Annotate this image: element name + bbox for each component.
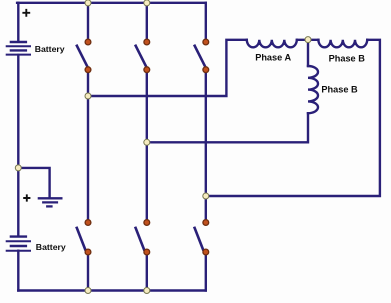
switch S5 blade [136, 228, 144, 250]
wire mid coil top lead [307, 40, 309, 66]
node top bus / leg A [85, 0, 91, 6]
wire left rail lower [17, 251, 19, 291]
node top bus / leg B [144, 0, 150, 6]
node leg A / phase feed [85, 93, 91, 99]
wire phase-A feed [88, 40, 247, 96]
switch contact S6 upper [203, 220, 209, 226]
switch S6 blade [195, 228, 203, 250]
svg-text:Phase B: Phase B [321, 84, 358, 94]
switch contact S4 lower [85, 249, 91, 255]
wire leg B middle [146, 70, 148, 223]
wire leg A upper [87, 3, 89, 42]
wire leg B lower [146, 252, 148, 291]
svg-text:Phase B: Phase B [329, 54, 366, 64]
wire leg C upper [205, 3, 207, 42]
wire leg A lower [87, 252, 89, 291]
switch contact S5 lower [144, 249, 150, 255]
wire leg C middle [205, 70, 207, 223]
switch contact S6 lower [203, 249, 209, 255]
ground [38, 198, 63, 206]
wire mid coil return [147, 113, 308, 142]
node left rail / ground [15, 165, 21, 171]
plus sign bottom [23, 194, 30, 201]
battery B1 [6, 42, 31, 55]
switch contact S2 upper [144, 39, 150, 45]
node leg C / right return [203, 193, 209, 199]
wire phase-B return right [206, 40, 380, 196]
node leg B / mid coil return [144, 139, 150, 145]
svg-text:Battery: Battery [36, 242, 66, 252]
switch contact S1 upper [85, 39, 91, 45]
inductor Phase A [247, 40, 297, 48]
wire leg A middle [87, 70, 89, 223]
switch S2 blade [136, 46, 146, 67]
wire left rail upper [17, 3, 19, 42]
node bottom bus / leg B [144, 288, 150, 294]
switch S4 blade [77, 228, 85, 250]
switch contact S3 lower [203, 67, 209, 73]
wire top bus [17, 2, 206, 4]
svg-text:Phase A: Phase A [255, 53, 291, 63]
switch contact S5 upper [144, 220, 150, 226]
plus sign top [22, 9, 30, 17]
inductor Phase B top [318, 40, 367, 48]
switch contact S3 upper [203, 39, 209, 45]
wire left rail middle [17, 55, 19, 236]
inductor Phase B middle [308, 66, 318, 113]
switch contact S1 lower [85, 67, 91, 73]
switch S3 blade [195, 46, 205, 67]
wire leg C lower [205, 252, 207, 291]
battery B2 [6, 237, 31, 251]
node bottom bus / leg A [85, 288, 91, 294]
switch S1 blade [77, 46, 87, 67]
node phase A / phase B [305, 37, 311, 43]
wire leg B upper [146, 3, 148, 42]
wire node AB link [297, 39, 318, 41]
wire bottom bus [18, 289, 206, 291]
switch contact S2 lower [144, 67, 150, 73]
wire ground branch [18, 168, 49, 197]
switch contact S4 upper [85, 220, 91, 226]
svg-text:Battery: Battery [35, 44, 65, 54]
